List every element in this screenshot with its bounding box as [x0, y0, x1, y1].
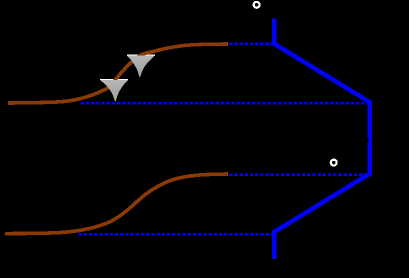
top sigmoid curve — [8, 44, 228, 103]
dashed level line upper-top — [229, 43, 272, 46]
cursor marker 1 top edge — [100, 78, 128, 80]
cursor marker 2 top edge — [127, 54, 155, 56]
dashed level line lower-bottom — [79, 233, 273, 236]
blue transfer polyline — [274, 18, 369, 259]
notch on right vertical line — [366, 138, 368, 142]
cursor marker 1 body — [100, 80, 128, 102]
ring marker top — [254, 2, 260, 8]
dashed level line lower-top — [81, 102, 368, 105]
bottom sigmoid curve — [5, 174, 228, 234]
cursor marker 2 body — [127, 56, 155, 78]
dashed level line upper-bottom — [229, 173, 367, 176]
ring marker right — [331, 160, 337, 166]
